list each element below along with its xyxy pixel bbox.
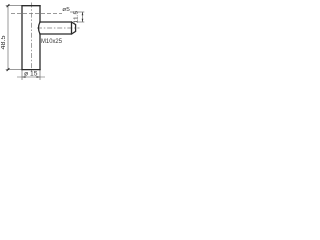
svg-text:M10x25: M10x25: [41, 39, 63, 45]
svg-text:ø5: ø5: [62, 7, 70, 13]
svg-text:11.5: 11.5: [73, 11, 79, 24]
svg-text:48.5: 48.5: [1, 35, 7, 50]
svg-text:ø 15: ø 15: [24, 72, 38, 78]
